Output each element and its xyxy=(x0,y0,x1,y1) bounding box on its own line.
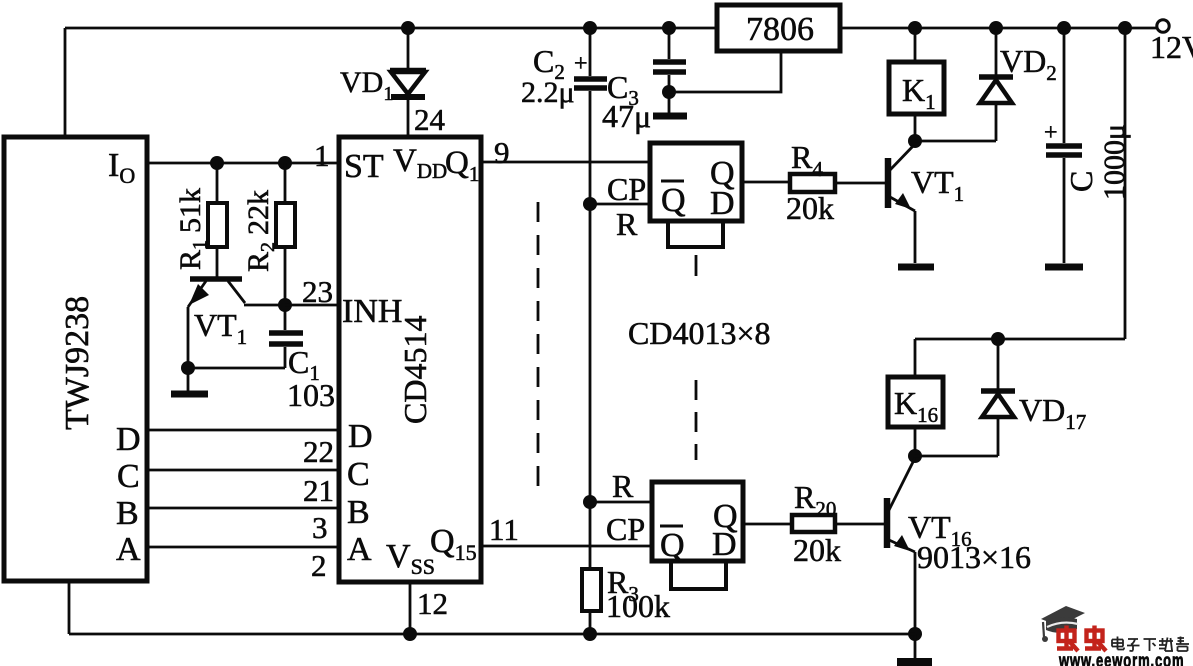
wire left drop from rail to TWJ9238 top xyxy=(64,28,67,137)
svg-text:B: B xyxy=(347,494,370,531)
svg-text:CD4013×8: CD4013×8 xyxy=(628,315,771,351)
relay K1 box xyxy=(914,28,917,141)
svg-text:47μ: 47μ xyxy=(602,98,651,134)
wire A bus xyxy=(147,546,339,549)
ground (C3) xyxy=(653,113,687,120)
node junction FF2 R xyxy=(583,495,597,509)
ground (C 1000u) xyxy=(1045,264,1083,271)
wire top +12V rail left segment xyxy=(65,27,717,30)
wire 7806 gnd to C3 xyxy=(669,51,781,92)
svg-text:+: + xyxy=(574,51,588,77)
wire top rail right segment xyxy=(840,27,1157,30)
svg-text:ST: ST xyxy=(344,148,384,185)
regulator 7806 box xyxy=(717,5,840,51)
svg-text:2: 2 xyxy=(311,548,327,583)
diode VD2 xyxy=(915,28,996,141)
ground (VT1 small) xyxy=(171,391,208,398)
svg-text:+: + xyxy=(1044,120,1058,146)
svg-text:CD4514: CD4514 xyxy=(397,316,433,424)
svg-text:9: 9 xyxy=(494,135,510,170)
dashed line between Q1 and Q15 xyxy=(537,202,540,493)
svg-text:A: A xyxy=(116,531,141,568)
svg-text:D: D xyxy=(710,185,735,222)
svg-text:12V: 12V xyxy=(1150,29,1193,65)
svg-text:22: 22 xyxy=(303,434,334,469)
transistor VT16 xyxy=(884,498,891,548)
FF1 tab xyxy=(668,221,723,247)
svg-text:100k: 100k xyxy=(606,588,670,624)
transistor VT1 (small, near TWJ9238) xyxy=(190,276,242,282)
node junction VT16 emitter / bottom rail xyxy=(908,627,922,641)
ground (VT16) xyxy=(897,658,932,666)
svg-text:11: 11 xyxy=(489,512,519,547)
svg-text:7806: 7806 xyxy=(746,11,814,48)
svg-text:103: 103 xyxy=(287,377,335,413)
capacitor C3 47u xyxy=(668,28,671,113)
node junction R1 top xyxy=(210,156,224,170)
diode VD17 xyxy=(915,339,998,456)
svg-text:B: B xyxy=(116,495,139,532)
wire 12V feed down and across to K16 xyxy=(915,28,1125,339)
node junction at C3 top xyxy=(662,21,676,35)
resistor R1 51k xyxy=(216,163,219,277)
wire Q1 to FF1 CP xyxy=(481,161,650,164)
svg-text:D: D xyxy=(712,526,737,563)
svg-text:D: D xyxy=(116,421,141,458)
node junction VD17 top xyxy=(991,332,1005,346)
node junction K16 bottom / VT16 collector xyxy=(908,449,922,463)
node junction at C2 top xyxy=(583,21,597,35)
resistor R3 100k xyxy=(589,569,592,634)
ground (VT1 driver) xyxy=(898,264,934,271)
svg-text:Q: Q xyxy=(661,182,686,219)
node junction reset line/rail xyxy=(583,627,597,641)
flip-flop FF2 CD4013 box xyxy=(652,482,743,561)
wire Q15 to FF2 CP xyxy=(481,545,652,548)
wire reset line to FF1 R xyxy=(590,203,650,206)
svg-text:INH: INH xyxy=(342,293,402,330)
node junction emitter/C1 xyxy=(181,361,195,375)
relay K16 box xyxy=(914,339,917,456)
watermark chongchong characters xyxy=(1057,626,1106,652)
node junction FF1 R xyxy=(583,197,597,211)
svg-text:20k: 20k xyxy=(786,190,834,226)
node junction at K1 branch xyxy=(908,21,922,35)
wire reset line to FF2 R xyxy=(590,501,652,504)
svg-text:CP: CP xyxy=(607,171,646,207)
wire bottom rail xyxy=(69,581,915,634)
svg-text:CP: CP xyxy=(606,511,645,547)
FF2 tab xyxy=(671,561,726,589)
svg-text:R222k: R222k xyxy=(242,190,279,272)
wire D bus xyxy=(147,429,339,432)
IC U2 CD4514 box xyxy=(339,137,481,582)
flip-flop FF1 CD4013 box xyxy=(650,143,742,221)
svg-text:21: 21 xyxy=(303,473,334,508)
svg-text:R151k: R151k xyxy=(174,188,211,270)
watermark graduation cap xyxy=(1041,606,1085,642)
wire B bus xyxy=(147,507,339,510)
wire C bus xyxy=(147,469,339,472)
svg-text:9013×16: 9013×16 xyxy=(917,539,1031,575)
svg-text:TWJ9238: TWJ9238 xyxy=(59,296,96,430)
svg-text:www.eeworm.com: www.eeworm.com xyxy=(1058,649,1184,666)
svg-text:1: 1 xyxy=(314,138,330,173)
node junction R2 top xyxy=(278,156,292,170)
wire C1 bottom to emitter xyxy=(188,367,285,370)
svg-text:2.2μ: 2.2μ xyxy=(521,76,575,109)
svg-text:R: R xyxy=(616,206,638,242)
svg-text:R: R xyxy=(612,468,634,504)
node junction at VD2 branch xyxy=(989,21,1003,35)
svg-text:D: D xyxy=(348,418,373,455)
dashed line above FF2 xyxy=(695,380,698,460)
wire emitter to ground xyxy=(914,634,917,659)
wire emitter to ground xyxy=(187,368,190,392)
node junction at 12V feed drop xyxy=(1118,21,1132,35)
svg-text:12: 12 xyxy=(417,586,448,621)
resistor R20 20k xyxy=(743,523,885,526)
transistor VT1 (driver) xyxy=(885,158,892,208)
capacitor C1 103 xyxy=(284,305,287,368)
node junction at VD1 top xyxy=(401,21,415,35)
node junction INH xyxy=(278,298,292,312)
node junction VSS/rail xyxy=(403,627,417,641)
svg-text:23: 23 xyxy=(302,274,333,309)
node junction K1 bottom / VT1 collector xyxy=(908,134,922,148)
12V terminal circle xyxy=(1157,20,1169,32)
svg-text:24: 24 xyxy=(414,102,446,137)
wire to INH pin xyxy=(285,304,339,307)
wire Io to ST xyxy=(147,162,339,165)
svg-text:C: C xyxy=(347,456,370,493)
svg-text:C: C xyxy=(117,458,140,495)
svg-text:C: C xyxy=(1063,171,1099,192)
wire VSS to bottom rail xyxy=(409,582,412,634)
capacitor C 1000u xyxy=(1063,28,1066,263)
IC U1 TWJ9238 box xyxy=(4,137,147,581)
diode VD1 xyxy=(407,28,410,70)
capacitor C2 2.2u xyxy=(589,28,592,569)
resistor R2 22k xyxy=(284,163,287,305)
watermark site name xyxy=(1112,637,1189,652)
svg-text:Q: Q xyxy=(660,527,685,564)
node junction at C 1000u branch xyxy=(1057,21,1071,35)
svg-text:A: A xyxy=(347,531,372,568)
resistor R4 20k xyxy=(742,182,886,183)
svg-text:3: 3 xyxy=(312,510,328,545)
node junction C3 / 7806 gnd xyxy=(662,85,676,99)
dashed line below FF1 xyxy=(695,255,698,276)
svg-text:20k: 20k xyxy=(793,532,841,568)
